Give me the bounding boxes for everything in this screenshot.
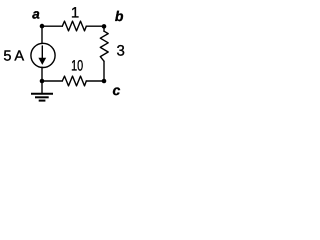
- wire stub node b to resistor 3: [103, 26, 105, 31]
- current source arrowhead: [38, 58, 46, 65]
- wire ground stem: [41, 81, 43, 93]
- svg-text:5: 5: [3, 48, 11, 64]
- wire from current source down to ground node: [41, 67, 43, 81]
- wire top-left from node a to resistor 1: [42, 25, 62, 27]
- wire right-bottom from resistor 3 to node c: [103, 61, 105, 81]
- resistor R2 value 3 (right vertical zigzag): [100, 31, 108, 61]
- node a junction dot: [40, 24, 45, 29]
- resistor R3 value 10 (bottom horizontal zigzag): [62, 76, 86, 86]
- node c junction dot: [102, 79, 107, 84]
- node b junction dot: [102, 24, 107, 29]
- wire from node a down to current source: [41, 26, 43, 43]
- wire top-right from resistor 1 to node b: [86, 25, 104, 27]
- svg-text:A: A: [14, 48, 24, 64]
- svg-text:10: 10: [71, 58, 83, 75]
- svg-text:a: a: [32, 6, 40, 21]
- svg-text:3: 3: [117, 42, 125, 59]
- ground symbol bars: [31, 94, 53, 101]
- current source I1 circle: [31, 43, 55, 67]
- svg-text:1: 1: [71, 5, 79, 22]
- current source arrow shaft: [41, 46, 43, 60]
- svg-text:c: c: [113, 82, 121, 98]
- wire bottom-left from resistor 10 to ground node: [42, 80, 62, 82]
- ground node junction dot: [40, 79, 45, 84]
- wire bottom-right from node c to resistor 10: [86, 80, 104, 82]
- svg-text:b: b: [115, 8, 124, 24]
- resistor R1 value 1 (top horizontal zigzag): [62, 21, 86, 31]
